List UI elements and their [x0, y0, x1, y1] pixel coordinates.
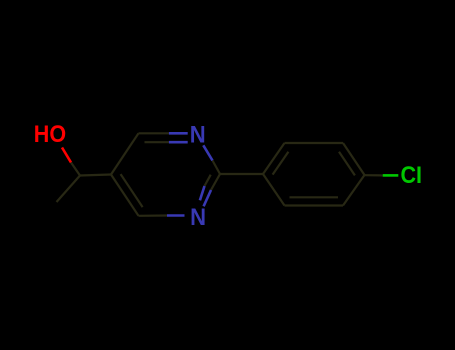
svg-text:HO: HO — [34, 120, 66, 148]
svg-text:N: N — [190, 120, 206, 147]
svg-text:CI: CI — [400, 161, 422, 189]
svg-text:N: N — [190, 203, 206, 230]
